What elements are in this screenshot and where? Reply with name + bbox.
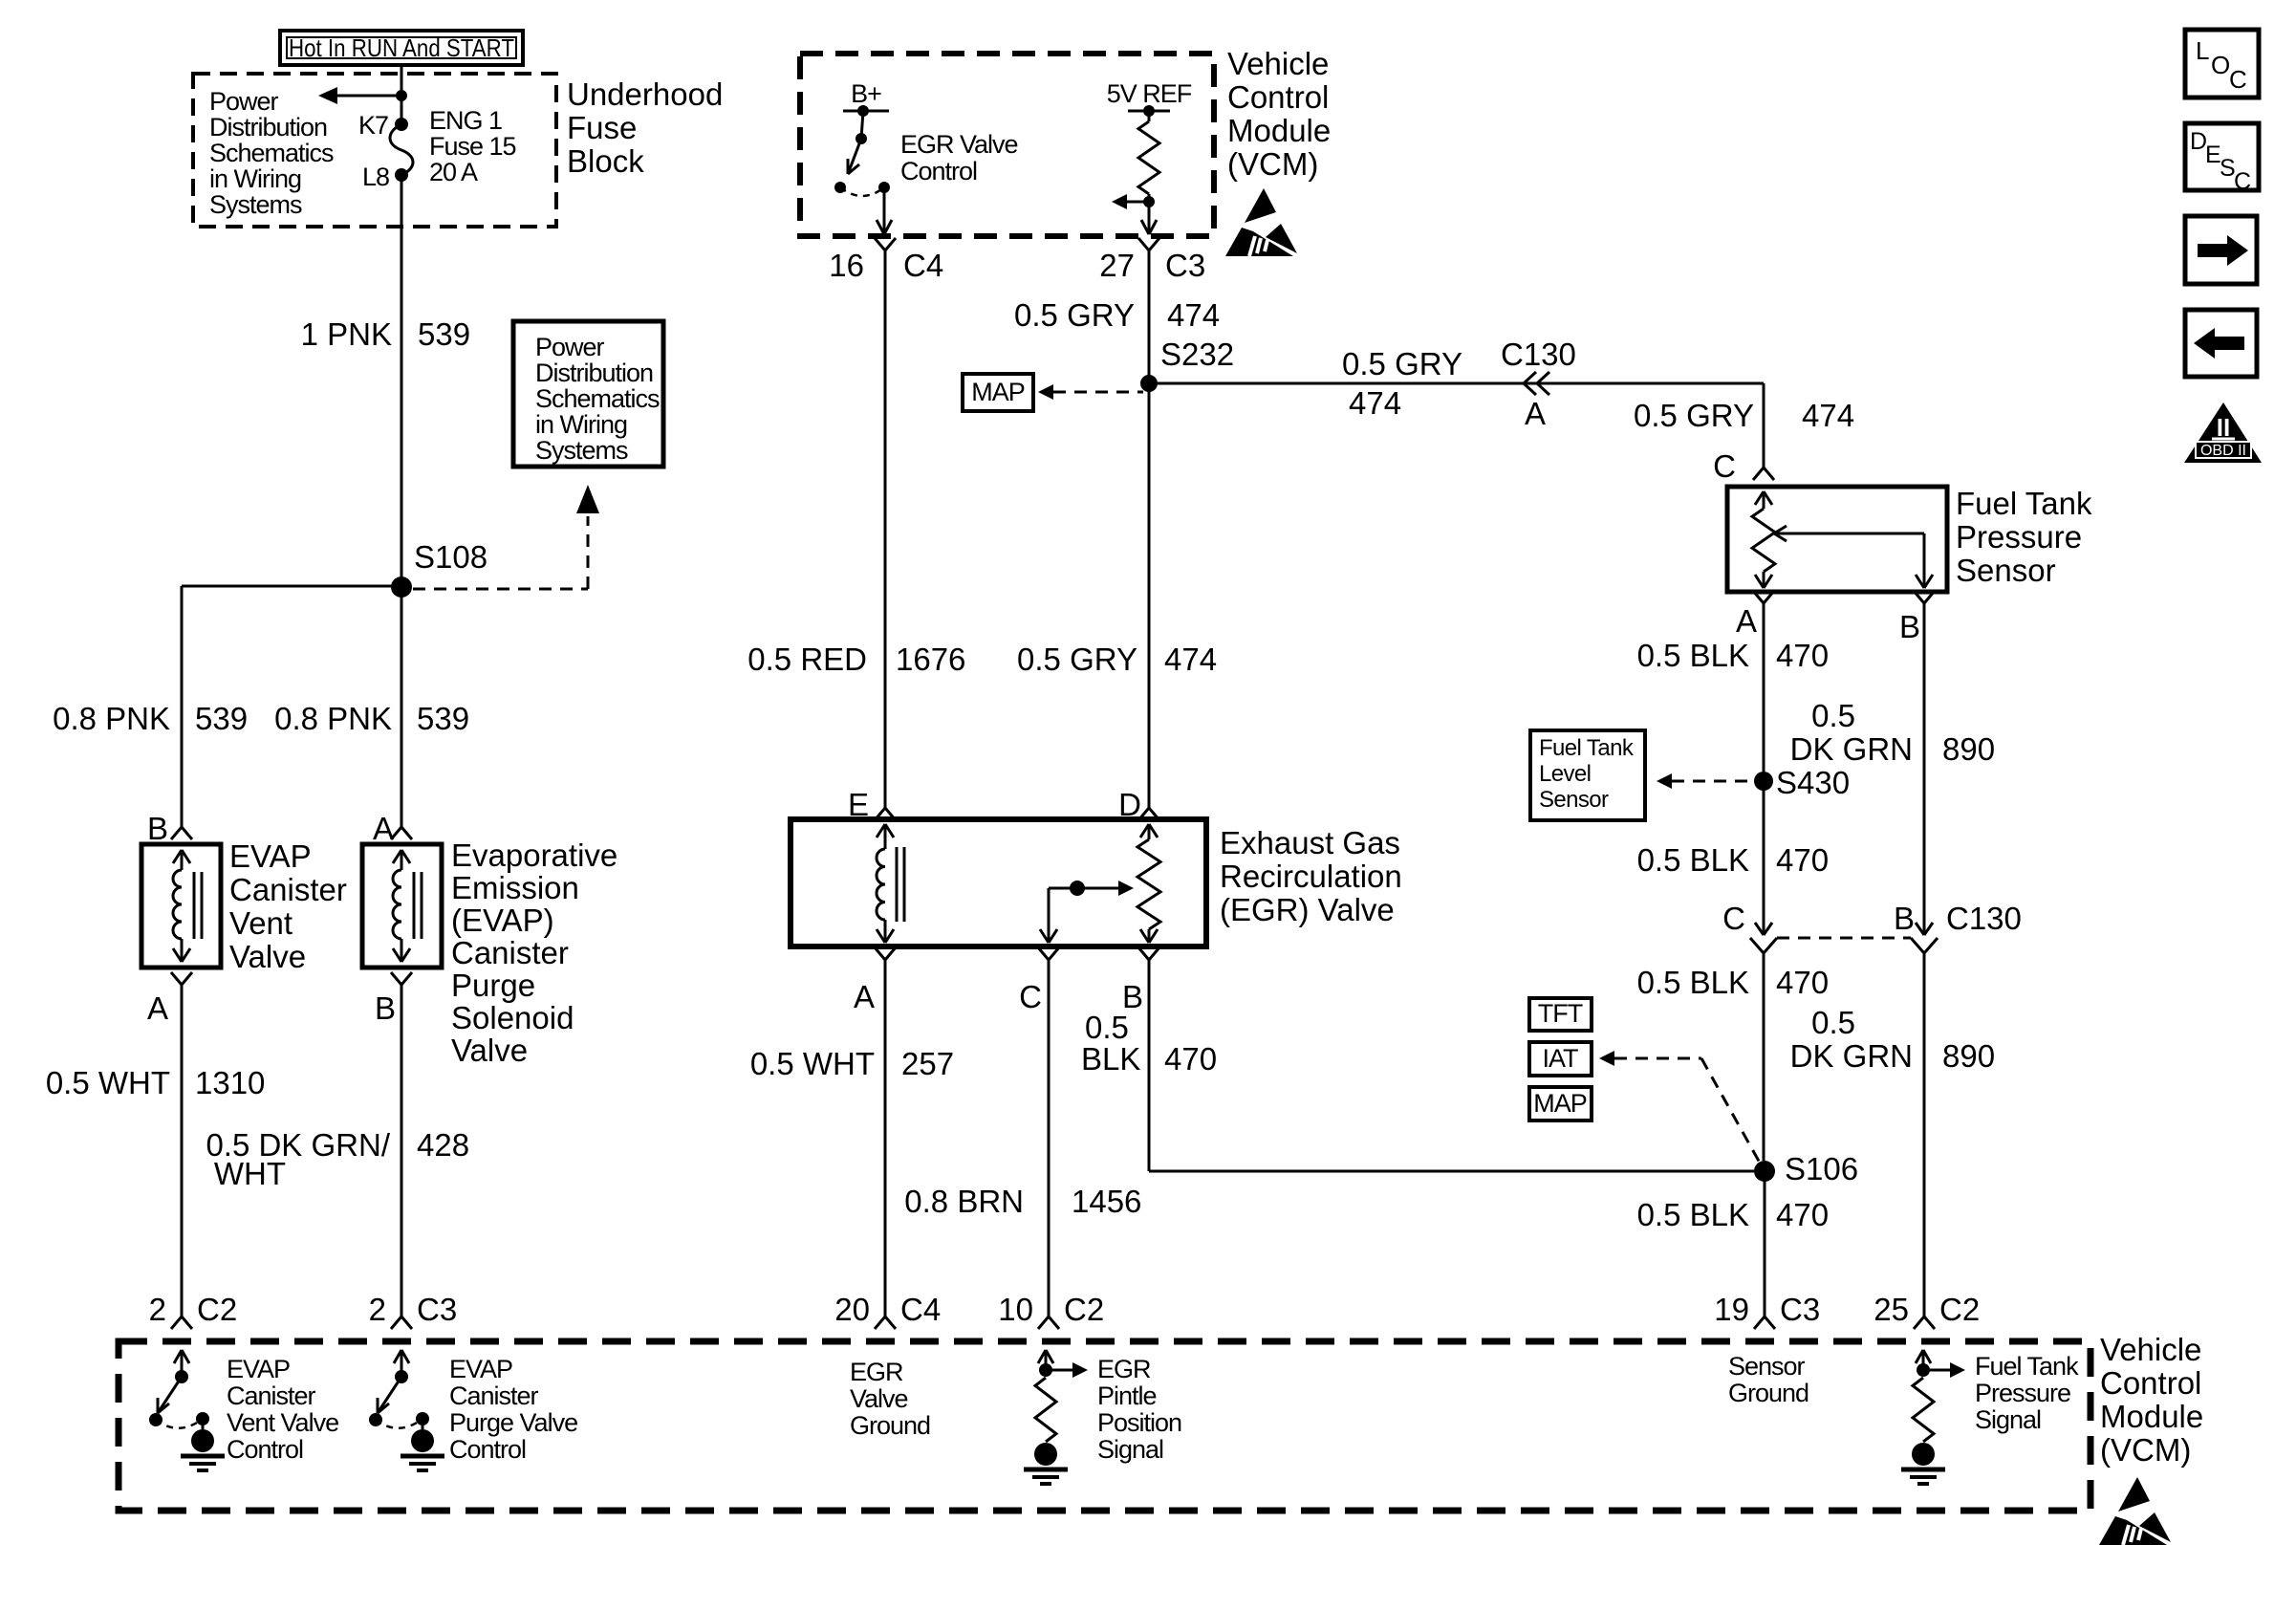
svg-text:470: 470	[1164, 1041, 1217, 1077]
svg-text:Vent: Vent	[229, 905, 292, 941]
svg-text:0.5 GRY: 0.5 GRY	[1017, 642, 1137, 677]
svg-text:Distribution: Distribution	[209, 113, 327, 141]
svg-text:Power: Power	[209, 87, 279, 116]
svg-text:C: C	[1713, 448, 1736, 484]
svg-text:470: 470	[1776, 638, 1829, 673]
svg-text:C130: C130	[1946, 901, 2022, 936]
svg-text:0.5 RED: 0.5 RED	[747, 642, 867, 677]
svg-text:Schematics: Schematics	[209, 139, 334, 167]
svg-text:K7: K7	[358, 111, 388, 140]
svg-text:20: 20	[834, 1292, 870, 1327]
svg-text:C4: C4	[900, 1292, 941, 1327]
svg-text:DK GRN: DK GRN	[1790, 1038, 1913, 1074]
svg-text:27: 27	[1099, 248, 1135, 283]
svg-text:25: 25	[1874, 1292, 1909, 1327]
svg-text:1310: 1310	[195, 1065, 265, 1100]
svg-text:OBD II: OBD II	[2200, 443, 2246, 459]
svg-text:2: 2	[369, 1292, 386, 1327]
svg-text:IAT: IAT	[1543, 1044, 1579, 1073]
svg-text:in Wiring: in Wiring	[535, 410, 627, 439]
svg-text:474: 474	[1164, 642, 1217, 677]
svg-text:S108: S108	[414, 539, 487, 575]
svg-text:474: 474	[1167, 297, 1220, 333]
svg-text:S106: S106	[1785, 1151, 1858, 1186]
svg-text:Systems: Systems	[209, 190, 302, 219]
svg-text:Canister: Canister	[229, 872, 347, 907]
svg-text:5V REF: 5V REF	[1107, 79, 1192, 108]
svg-text:10: 10	[998, 1292, 1033, 1327]
svg-text:Fuse 15: Fuse 15	[429, 132, 516, 161]
svg-text:WHT: WHT	[214, 1156, 286, 1191]
svg-text:539: 539	[418, 316, 470, 352]
svg-text:Emission: Emission	[451, 870, 579, 905]
svg-text:A: A	[373, 811, 394, 846]
svg-text:Underhood: Underhood	[567, 76, 723, 112]
svg-text:Distribution: Distribution	[535, 359, 653, 387]
svg-text:(VCM): (VCM)	[1227, 146, 1318, 182]
svg-text:Hot In RUN And START: Hot In RUN And START	[289, 33, 514, 62]
svg-text:(EVAP): (EVAP)	[451, 903, 554, 938]
svg-text:1 PNK: 1 PNK	[301, 316, 392, 352]
svg-text:Fuel Tank: Fuel Tank	[1539, 735, 1635, 761]
svg-text:Recirculation: Recirculation	[1220, 859, 1402, 894]
svg-text:Canister: Canister	[227, 1382, 316, 1410]
svg-text:C3: C3	[417, 1292, 457, 1327]
svg-text:ENG 1: ENG 1	[429, 106, 502, 135]
svg-text:Module: Module	[1227, 113, 1331, 148]
svg-text:257: 257	[901, 1046, 954, 1081]
svg-text:539: 539	[417, 701, 469, 736]
svg-text:B: B	[1894, 901, 1915, 936]
svg-text:MAP: MAP	[1533, 1089, 1587, 1118]
svg-text:C2: C2	[197, 1292, 237, 1327]
svg-text:0.8 BRN: 0.8 BRN	[904, 1184, 1024, 1219]
svg-text:1676: 1676	[896, 642, 965, 677]
svg-text:A: A	[147, 990, 168, 1026]
svg-text:C: C	[2229, 65, 2247, 94]
svg-text:0.5: 0.5	[1085, 1010, 1129, 1045]
svg-text:Valve: Valve	[451, 1033, 528, 1068]
svg-text:Valve: Valve	[850, 1384, 908, 1413]
svg-text:Exhaust Gas: Exhaust Gas	[1220, 825, 1400, 860]
svg-text:C: C	[1722, 901, 1745, 936]
svg-text:B: B	[375, 990, 396, 1026]
svg-text:Control: Control	[1227, 79, 1329, 115]
svg-text:Pintle: Pintle	[1097, 1382, 1157, 1410]
svg-text:Control: Control	[227, 1435, 303, 1464]
svg-text:474: 474	[1802, 398, 1854, 433]
svg-text:Block: Block	[567, 143, 644, 179]
svg-text:0.5: 0.5	[1811, 698, 1855, 733]
svg-text:Fuel Tank: Fuel Tank	[1956, 486, 2092, 521]
svg-text:Evaporative: Evaporative	[451, 838, 617, 873]
svg-text:890: 890	[1942, 731, 1995, 767]
svg-text:Level: Level	[1539, 761, 1591, 787]
svg-text:Purge Valve: Purge Valve	[449, 1408, 577, 1437]
svg-text:Module: Module	[2100, 1399, 2203, 1434]
svg-text:Position: Position	[1097, 1408, 1181, 1437]
svg-text:1456: 1456	[1072, 1184, 1141, 1219]
svg-text:539: 539	[195, 701, 248, 736]
svg-text:0.5 WHT: 0.5 WHT	[46, 1065, 170, 1100]
svg-text:Systems: Systems	[535, 436, 628, 465]
svg-text:Pressure: Pressure	[1956, 519, 2082, 555]
svg-text:B: B	[147, 811, 168, 846]
svg-text:470: 470	[1776, 1197, 1829, 1232]
svg-text:0.5 WHT: 0.5 WHT	[750, 1046, 875, 1081]
svg-text:0.5 BLK: 0.5 BLK	[1637, 965, 1749, 1000]
svg-text:Ground: Ground	[850, 1411, 930, 1440]
svg-text:Ground: Ground	[1728, 1379, 1809, 1407]
svg-text:C130: C130	[1501, 337, 1576, 372]
svg-text:O: O	[2211, 51, 2230, 79]
svg-text:Solenoid: Solenoid	[451, 1000, 574, 1035]
svg-text:Canister: Canister	[449, 1382, 539, 1410]
svg-text:0.5 GRY: 0.5 GRY	[1342, 346, 1462, 381]
svg-text:Signal: Signal	[1097, 1435, 1163, 1464]
svg-text:Purge: Purge	[451, 968, 535, 1003]
svg-text:B: B	[1899, 609, 1920, 644]
svg-text:0.8 PNK: 0.8 PNK	[53, 701, 170, 736]
svg-text:in Wiring: in Wiring	[209, 164, 301, 193]
svg-text:EGR: EGR	[1097, 1355, 1151, 1383]
svg-text:Fuse: Fuse	[567, 110, 637, 145]
svg-text:TFT: TFT	[1538, 999, 1583, 1028]
svg-text:C: C	[1019, 979, 1042, 1014]
svg-text:EGR: EGR	[850, 1358, 903, 1386]
svg-text:C2: C2	[1939, 1292, 1980, 1327]
svg-text:Sensor: Sensor	[1539, 787, 1609, 813]
svg-text:EGR Valve: EGR Valve	[900, 130, 1018, 159]
svg-text:L8: L8	[362, 163, 389, 191]
svg-text:890: 890	[1942, 1038, 1995, 1074]
svg-text:B+: B+	[851, 79, 881, 108]
svg-text:C3: C3	[1165, 248, 1205, 283]
svg-text:Control: Control	[449, 1435, 526, 1464]
svg-text:BLK: BLK	[1081, 1041, 1140, 1077]
svg-text:Power: Power	[535, 333, 605, 361]
svg-text:A: A	[1736, 603, 1757, 639]
svg-text:L: L	[2196, 36, 2209, 65]
svg-text:428: 428	[417, 1127, 469, 1163]
svg-text:S232: S232	[1160, 337, 1234, 372]
svg-text:C3: C3	[1780, 1292, 1820, 1327]
svg-text:16: 16	[829, 248, 864, 283]
svg-text:Pressure: Pressure	[1975, 1379, 2070, 1407]
svg-text:470: 470	[1776, 965, 1829, 1000]
svg-text:(EGR) Valve: (EGR) Valve	[1220, 892, 1395, 927]
svg-text:474: 474	[1349, 385, 1401, 421]
svg-text:Vehicle: Vehicle	[2100, 1332, 2201, 1367]
svg-text:MAP: MAP	[971, 378, 1025, 406]
svg-text:0.5 GRY: 0.5 GRY	[1634, 398, 1754, 433]
svg-text:Vent Valve: Vent Valve	[227, 1408, 338, 1437]
svg-text:Signal: Signal	[1975, 1405, 2041, 1434]
svg-text:Valve: Valve	[229, 939, 306, 974]
svg-text:C: C	[2234, 168, 2251, 195]
svg-text:C2: C2	[1064, 1292, 1104, 1327]
svg-text:0.5 BLK: 0.5 BLK	[1637, 842, 1749, 878]
svg-text:Control: Control	[900, 157, 977, 185]
svg-text:2: 2	[149, 1292, 166, 1327]
svg-text:S430: S430	[1776, 765, 1850, 800]
svg-text:EVAP: EVAP	[227, 1355, 290, 1383]
svg-text:Fuel Tank: Fuel Tank	[1975, 1352, 2079, 1381]
svg-text:A: A	[1525, 396, 1546, 431]
svg-text:0.5: 0.5	[1811, 1005, 1855, 1040]
svg-text:Canister: Canister	[451, 935, 569, 970]
svg-text:470: 470	[1776, 842, 1829, 878]
svg-text:Control: Control	[2100, 1365, 2201, 1401]
svg-text:0.5 BLK: 0.5 BLK	[1637, 638, 1749, 673]
svg-text:EVAP: EVAP	[229, 838, 312, 874]
svg-text:Sensor: Sensor	[1956, 553, 2056, 588]
svg-text:DK GRN: DK GRN	[1790, 731, 1913, 767]
svg-text:0.5 GRY: 0.5 GRY	[1014, 297, 1135, 333]
svg-text:Schematics: Schematics	[535, 384, 660, 413]
svg-text:19: 19	[1714, 1292, 1749, 1327]
svg-text:(VCM): (VCM)	[2100, 1432, 2191, 1468]
svg-text:A: A	[854, 979, 875, 1014]
svg-text:20 A: 20 A	[429, 158, 478, 186]
svg-text:0.8 PNK: 0.8 PNK	[274, 701, 392, 736]
svg-text:0.5 BLK: 0.5 BLK	[1637, 1197, 1749, 1232]
svg-text:Vehicle: Vehicle	[1227, 46, 1329, 81]
svg-text:EVAP: EVAP	[449, 1355, 512, 1383]
svg-text:C4: C4	[903, 248, 943, 283]
svg-text:Sensor: Sensor	[1728, 1352, 1806, 1381]
